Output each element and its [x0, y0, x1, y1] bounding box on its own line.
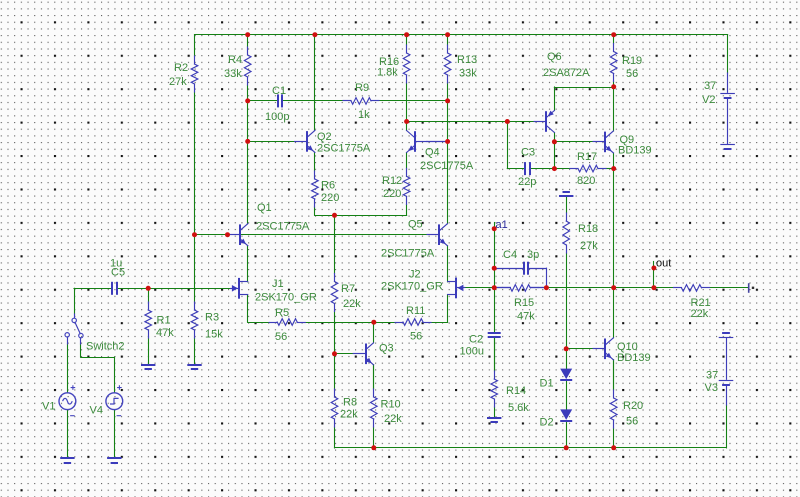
svg-text:2SK170_GR: 2SK170_GR — [255, 292, 317, 304]
svg-text:V1: V1 — [42, 401, 55, 413]
svg-text:R6: R6 — [321, 180, 335, 192]
svg-text:R17: R17 — [577, 151, 597, 163]
svg-text:3p: 3p — [527, 249, 539, 261]
svg-text:C1: C1 — [272, 85, 286, 97]
svg-text:D2: D2 — [540, 417, 554, 429]
svg-text:a1: a1 — [496, 219, 508, 231]
svg-text:R11: R11 — [406, 305, 425, 317]
svg-text:27k: 27k — [580, 240, 598, 252]
svg-text:Q2: Q2 — [317, 131, 332, 143]
svg-text:R12: R12 — [382, 175, 402, 187]
svg-text:J1: J1 — [272, 278, 284, 290]
svg-text:220: 220 — [383, 188, 401, 200]
svg-text:2SC1775A: 2SC1775A — [381, 248, 435, 260]
svg-text:47k: 47k — [517, 311, 535, 323]
svg-text:33k: 33k — [224, 68, 242, 80]
svg-text:1k: 1k — [358, 109, 370, 121]
svg-text:Q1: Q1 — [257, 202, 272, 214]
svg-text:R5: R5 — [275, 307, 289, 319]
svg-text:Q3: Q3 — [379, 343, 394, 355]
svg-text:56: 56 — [275, 331, 287, 343]
svg-text:2SC1775A: 2SC1775A — [256, 221, 310, 233]
svg-text:Switch2: Switch2 — [86, 341, 125, 353]
svg-text:15k: 15k — [205, 329, 223, 341]
svg-text:R8: R8 — [343, 397, 357, 409]
svg-text:2SC1775A: 2SC1775A — [317, 143, 371, 155]
svg-text:56: 56 — [626, 416, 638, 428]
svg-text:out: out — [656, 258, 671, 270]
svg-text:22k: 22k — [691, 308, 709, 320]
svg-text:R7: R7 — [341, 283, 355, 295]
svg-text:BD139: BD139 — [617, 352, 651, 364]
svg-text:Q5: Q5 — [408, 219, 423, 231]
svg-text:100u: 100u — [460, 346, 484, 358]
svg-text:27k: 27k — [169, 76, 187, 88]
svg-text:V4: V4 — [90, 405, 103, 417]
svg-text:R13: R13 — [457, 54, 477, 66]
svg-text:37: 37 — [704, 80, 716, 92]
svg-text:22k: 22k — [384, 413, 402, 425]
svg-text:2SK170_GR: 2SK170_GR — [381, 281, 443, 293]
svg-text:56: 56 — [626, 68, 638, 80]
svg-text:1.8k: 1.8k — [377, 67, 398, 79]
svg-text:R20: R20 — [623, 400, 643, 412]
svg-text:J2: J2 — [409, 269, 421, 281]
svg-text:R19: R19 — [622, 55, 642, 67]
svg-text:R1: R1 — [157, 315, 171, 327]
svg-text:C4: C4 — [503, 249, 517, 261]
svg-text:R10: R10 — [381, 399, 401, 411]
svg-text:R14: R14 — [506, 385, 526, 397]
svg-text:22k: 22k — [340, 409, 358, 421]
svg-text:R9: R9 — [355, 82, 369, 94]
svg-text:Q4: Q4 — [425, 147, 440, 159]
svg-text:2SA872A: 2SA872A — [543, 67, 590, 79]
svg-text:22p: 22p — [518, 176, 536, 188]
svg-text:C3: C3 — [521, 147, 535, 159]
svg-text:C2: C2 — [469, 334, 483, 346]
svg-text:R15: R15 — [514, 297, 534, 309]
svg-text:220: 220 — [321, 192, 339, 204]
svg-text:V3: V3 — [705, 382, 718, 394]
svg-text:R4: R4 — [228, 54, 242, 66]
svg-text:22k: 22k — [343, 298, 361, 310]
svg-text:5.6k: 5.6k — [508, 402, 529, 414]
svg-text:R18: R18 — [578, 223, 598, 235]
svg-text:37: 37 — [706, 370, 718, 382]
svg-text:100p: 100p — [265, 111, 289, 123]
svg-text:BD139: BD139 — [618, 145, 652, 157]
svg-text:2SC1775A: 2SC1775A — [420, 160, 474, 172]
svg-text:D1: D1 — [540, 378, 554, 390]
svg-text:Q6: Q6 — [547, 51, 562, 63]
svg-text:820: 820 — [577, 175, 595, 187]
svg-text:C5: C5 — [111, 267, 125, 279]
svg-text:33k: 33k — [459, 68, 477, 80]
svg-text:R2: R2 — [174, 62, 188, 74]
svg-text:56: 56 — [410, 331, 422, 343]
svg-text:47k: 47k — [156, 327, 174, 339]
svg-text:R3: R3 — [205, 312, 219, 324]
svg-text:V2: V2 — [702, 94, 715, 106]
